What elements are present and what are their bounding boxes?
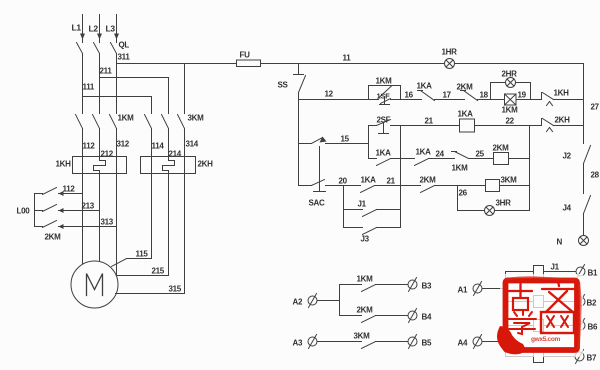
terminal A1 (458, 282, 483, 296)
wire 311 to FU and control bus (117, 63, 584, 65)
selector SAC linkage (319, 147, 321, 191)
switch SS (278, 64, 306, 93)
svg-text:J3: J3 (361, 235, 370, 244)
svg-text:2KM: 2KM (420, 176, 437, 185)
svg-text:21: 21 (425, 117, 434, 126)
contact 2KM row B4 (340, 306, 408, 323)
svg-text:19: 19 (518, 91, 527, 100)
svg-text:B2: B2 (587, 299, 597, 308)
breaker QL pole 1 (77, 43, 83, 114)
connector J2 row B2 (506, 296, 576, 308)
svg-text:A2: A2 (293, 298, 303, 307)
J branch bus x343 (343, 186, 345, 228)
svg-text:28: 28 (591, 171, 600, 180)
svg-text:N: N (557, 238, 563, 247)
stamp char gu (509, 284, 532, 310)
svg-text:1HR: 1HR (442, 48, 458, 57)
terminal B6 (576, 319, 598, 333)
svg-text:3KM: 3KM (188, 114, 205, 123)
svg-text:B7: B7 (587, 354, 597, 363)
svg-text:A1: A1 (458, 286, 468, 295)
svg-text:1KA: 1KA (458, 110, 474, 119)
svg-text:1KM: 1KM (357, 275, 374, 284)
coil 1KM (502, 94, 519, 115)
svg-text:2KM: 2KM (457, 83, 474, 92)
right bus upper (583, 64, 585, 144)
svg-text:211: 211 (100, 67, 113, 76)
terminal B4 (408, 309, 432, 323)
breaker QL pole 2 (94, 43, 100, 114)
connector J1 row B1 (506, 263, 576, 278)
terminal A4 (458, 335, 483, 349)
terminal A3 (293, 335, 318, 349)
selector SAC upper contact (312, 137, 327, 144)
fuse FU (237, 51, 261, 67)
WATERMARK-STAMP (497, 274, 583, 357)
svg-text:1KM: 1KM (452, 164, 469, 173)
contact 1KM row B3 (340, 275, 408, 292)
svg-text:315: 315 (169, 285, 182, 294)
svg-text:A3: A3 (293, 339, 303, 348)
svg-text:18: 18 (480, 91, 489, 100)
contact 1KM row D (452, 152, 469, 173)
svg-text:B3: B3 (422, 282, 432, 291)
thermal contact 2KH (542, 116, 571, 132)
row C wire (401, 125, 584, 127)
contact J1 row (344, 200, 401, 217)
breaker QL pole 3 (111, 43, 117, 114)
svg-text:2SF: 2SF (377, 116, 391, 125)
svg-text:1KA: 1KA (416, 148, 432, 157)
contact J4 (563, 196, 591, 214)
svg-text:L00: L00 (17, 207, 31, 216)
contact 1KA parallel with 2SF (369, 149, 401, 166)
wire 315 (116, 174, 185, 294)
lamp 3HR row (458, 199, 530, 216)
stamp char xue (508, 311, 536, 334)
contactor 2KM pole 2 and wire 213 (35, 202, 100, 214)
svg-text:12: 12 (325, 90, 334, 99)
svg-text:114: 114 (152, 142, 165, 151)
vertical bus x400 (400, 126, 402, 228)
motor M (71, 261, 118, 308)
contactor 2KM bus (34, 194, 36, 227)
wire A4 split (483, 326, 506, 357)
motor feed wire V (99, 174, 101, 262)
row D wire (401, 158, 530, 160)
contact 1KA row E (361, 176, 377, 193)
pushbutton 1SF (377, 86, 392, 105)
row 15 wire (299, 135, 369, 144)
contactor 3KM pole 1 (145, 115, 152, 157)
right bus lower (583, 214, 585, 236)
svg-text:17: 17 (443, 91, 452, 100)
motor feed wire W (116, 174, 118, 276)
svg-text:L3: L3 (106, 24, 116, 34)
row E wire (299, 185, 530, 187)
svg-text:1KA: 1KA (361, 176, 377, 185)
svg-text:115: 115 (136, 250, 149, 259)
svg-text:314: 314 (186, 140, 199, 149)
contactor 1KM pole 3 (110, 115, 117, 157)
svg-text:SAC: SAC (309, 199, 326, 208)
stamp border roughness right (579, 283, 581, 348)
right bus middle (583, 164, 585, 194)
terminal B3 (408, 278, 432, 292)
coil 1KA (458, 110, 475, 133)
svg-text:J4: J4 (563, 204, 572, 213)
contactor 2KM pole 3 and wire 313 (35, 218, 117, 230)
2SF parallel block left leg (368, 126, 370, 159)
svg-text:QL: QL (119, 41, 130, 50)
contact J3 row (344, 228, 401, 244)
stamp white underlay (500, 274, 583, 357)
terminal B1 (576, 265, 598, 279)
lamp 2HR parallel loop (491, 70, 531, 100)
thermal relay 1KH box (56, 157, 127, 174)
svg-text:1SF: 1SF (377, 92, 391, 101)
svg-text:2KM: 2KM (357, 306, 374, 315)
svg-text:21: 21 (387, 177, 396, 186)
contactor 3KM pole 2 (162, 115, 169, 157)
svg-text:B1: B1 (588, 269, 598, 278)
svg-text:2KH: 2KH (198, 160, 214, 169)
svg-text:25: 25 (476, 150, 485, 159)
svg-text:111: 111 (83, 83, 95, 92)
contact 2KM row 12 (457, 83, 478, 101)
supply line L2 (89, 15, 103, 43)
svg-text:SS: SS (278, 81, 289, 90)
wire node 26 drop (457, 186, 459, 211)
svg-text:1KM: 1KM (376, 77, 393, 86)
stamp border roughness top (506, 277, 576, 279)
wire 115 (112, 174, 152, 267)
supply line L1 (72, 15, 86, 43)
svg-text:J1: J1 (358, 200, 367, 209)
svg-text:311: 311 (118, 53, 131, 62)
contact 1KA row D (415, 148, 432, 166)
left control drop wire (298, 93, 300, 186)
contact 2KM row E (420, 176, 437, 193)
terminal B2 (576, 295, 597, 309)
svg-text:112: 112 (63, 185, 76, 194)
coil 3KM (486, 176, 518, 192)
wire A2 split (318, 285, 340, 316)
wire drop to 3KM pole 3 (184, 64, 186, 114)
svg-text:20: 20 (339, 177, 348, 186)
self-hold contact 1KM loop (369, 77, 401, 100)
svg-text:2KM: 2KM (45, 233, 62, 242)
coil 2KM (493, 144, 510, 165)
stamp char wang (541, 312, 574, 333)
svg-text:26: 26 (459, 189, 468, 198)
svg-text:16: 16 (405, 91, 414, 100)
stamp char wen (542, 281, 575, 313)
svg-text:J1: J1 (551, 263, 560, 272)
lamp N (557, 236, 589, 247)
supply line L3 (106, 15, 120, 43)
svg-text:FU: FU (240, 51, 251, 60)
svg-text:215: 215 (152, 267, 165, 276)
coil return bus x529 (529, 126, 531, 211)
svg-text:1KH: 1KH (554, 89, 570, 98)
svg-text:J2: J2 (563, 152, 572, 161)
svg-text:22: 22 (506, 117, 515, 126)
svg-text:1KM: 1KM (502, 106, 519, 115)
contactor 2KM pole 1 and wire 112 (35, 185, 83, 197)
svg-text:2KH: 2KH (555, 116, 571, 125)
svg-text:L2: L2 (89, 24, 99, 34)
svg-text:3KM: 3KM (501, 176, 518, 185)
svg-text:2KM: 2KM (493, 144, 510, 153)
svg-text:A4: A4 (458, 339, 468, 348)
contact 3KM row B5 (318, 332, 408, 349)
wire 215 (117, 174, 169, 276)
svg-text:B4: B4 (422, 313, 432, 322)
contact J2 (563, 146, 591, 164)
svg-text:15: 15 (341, 135, 350, 144)
svg-text:1KA: 1KA (417, 82, 433, 91)
connector J4 row B7 (506, 351, 576, 363)
svg-text:1KM: 1KM (118, 114, 135, 123)
thermal contact 1KH (542, 89, 570, 106)
terminal A2 (293, 294, 318, 308)
svg-text:11: 11 (343, 54, 352, 63)
svg-text:313: 313 (101, 218, 114, 227)
svg-text:213: 213 (82, 202, 95, 211)
svg-text:2HR: 2HR (502, 70, 518, 79)
wire 211 tap (100, 78, 169, 114)
svg-text:B5: B5 (422, 339, 432, 348)
row 12 wire (299, 99, 584, 101)
contactor 3KM pole 3 (178, 115, 185, 157)
svg-text:L1: L1 (72, 23, 82, 33)
svg-text:3KM: 3KM (354, 332, 371, 341)
pushbutton 2SF (369, 116, 401, 134)
selector SAC lower contact (309, 180, 326, 208)
thermal relay 2KH box (141, 157, 214, 174)
wire 111 tap (83, 97, 152, 114)
svg-text:B6: B6 (588, 323, 598, 332)
svg-text:27: 27 (591, 103, 600, 112)
svg-text:1KA: 1KA (376, 149, 392, 158)
contactor 1KM pole 1 (76, 115, 83, 157)
contactor 1KM pole 2 (93, 115, 100, 157)
svg-text:112: 112 (83, 142, 96, 151)
stamp border (506, 281, 578, 351)
terminal B7 (575, 350, 597, 364)
terminal B5 (408, 335, 432, 349)
svg-text:1KH: 1KH (56, 160, 72, 169)
wire A1 split (483, 272, 506, 302)
svg-text:24: 24 (436, 150, 445, 159)
svg-text:gwx5.com: gwx5.com (531, 336, 561, 343)
connector J3 row B6 (506, 320, 576, 332)
svg-text:312: 312 (117, 140, 130, 149)
stamp ink blob (497, 326, 525, 354)
svg-text:3HR: 3HR (496, 199, 512, 208)
motor feed wire U (82, 174, 84, 265)
lamp 1HR (442, 48, 458, 69)
contact 1KA row 12 (417, 82, 435, 101)
